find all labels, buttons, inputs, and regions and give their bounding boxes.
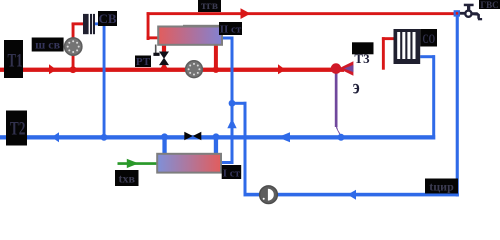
wire: red tgv top line: [147, 12, 457, 15]
label I st: [222, 165, 242, 179]
shut-off valve on return main: [184, 132, 201, 141]
wire: red tgv arrow: [241, 8, 251, 19]
CB ventilation heater bars: [83, 14, 89, 34]
svg-text:I ст: I ст: [223, 167, 241, 179]
node: purple line junction into return main: [338, 134, 345, 141]
label GVS: [479, 0, 500, 10]
label tgv: [198, 0, 221, 12]
svg-text:Т1: Т1: [8, 51, 23, 72]
label T1: [4, 40, 23, 78]
CO radiator: [394, 29, 421, 64]
label CB: [98, 11, 117, 26]
wire: green cold water inlet: [118, 162, 158, 165]
node: junction riser / circulation: [229, 100, 236, 107]
svg-text:Т2: Т2: [10, 119, 26, 140]
label T2: [6, 111, 27, 146]
elevator: [331, 61, 354, 76]
wire: red branch to CB heater: [72, 23, 75, 70]
wire: blue return arrow 1: [52, 132, 59, 142]
wire: blue return arrow 2: [278, 132, 290, 142]
node: junction CB return into main: [101, 134, 108, 141]
label CO: [420, 29, 437, 47]
wire: blue return main T2: [0, 135, 435, 139]
svg-text:СВ: СВ: [98, 11, 116, 26]
svg-text:tцир: tцир: [429, 179, 454, 193]
wire: green arrow: [127, 159, 139, 168]
label RT: [135, 56, 151, 68]
label II st: [219, 22, 242, 36]
label T3: [352, 42, 374, 66]
GVS tap symbol: [460, 4, 482, 21]
svg-text:Т3: Т3: [354, 51, 370, 66]
wire: blue return from CB heater: [95, 22, 106, 25]
GVS node: [454, 10, 460, 16]
wire: blue circulation bottom line: [244, 193, 459, 197]
wire: red supply arrow 2: [278, 64, 286, 74]
wire: blue riser up arrow: [227, 119, 236, 129]
svg-text:РТ: РТ: [136, 56, 151, 68]
svg-text:э: э: [353, 77, 360, 99]
wire: blue CO radiator return: [420, 55, 435, 58]
svg-text:ш св: ш св: [35, 38, 60, 52]
wire: blue GVS drop from node to circulation: [456, 17, 459, 197]
wire: blue stub main to exchanger I right: [214, 136, 218, 154]
node: junction dot: [212, 133, 219, 140]
wire: red supply arrow 1: [49, 64, 57, 74]
wire: red line elevator to radiator riser: [382, 37, 385, 69]
node: junction dot: [161, 133, 168, 140]
heat exchanger stage I (bottom): [157, 154, 221, 173]
wire: blue stub main to exchanger I left: [162, 136, 166, 154]
wire: blue DHW riser stage I to stage II: [222, 161, 234, 164]
orifice washer sh-st on supply main: [186, 61, 203, 78]
wire: red stub exchanger II bottom-left to valve: [162, 45, 166, 52]
label tkhv: [115, 170, 139, 186]
svg-text:ГВС: ГВС: [480, 0, 498, 10]
node: junction on red main at CB branch: [70, 66, 77, 73]
wire: purple elevator mixing line: [335, 70, 338, 127]
wire: red supply main T1: [0, 68, 344, 72]
circulation pump: [260, 186, 278, 204]
wire: red stub exchanger II bottom-right to supply main: [214, 45, 218, 70]
wire: red riser from tgv line to stage II exchanger: [147, 12, 150, 40]
orifice washer sh-sv: [65, 38, 82, 55]
svg-text:tхв: tхв: [118, 172, 135, 186]
wire: blue circulation arrow: [348, 190, 356, 200]
label tcir: [425, 179, 458, 194]
svg-text:тгв: тгв: [201, 0, 218, 12]
wire: blue circulation branch: [232, 102, 247, 105]
heat exchanger stage II (top): [183, 25, 222, 28]
RT temperature regulator valve: [153, 45, 169, 66]
svg-text:II ст: II ст: [220, 24, 242, 36]
wire: red fillet from valve to supply main: [159, 63, 170, 72]
svg-text:СО: СО: [423, 32, 436, 46]
label sh sv: [32, 38, 64, 52]
